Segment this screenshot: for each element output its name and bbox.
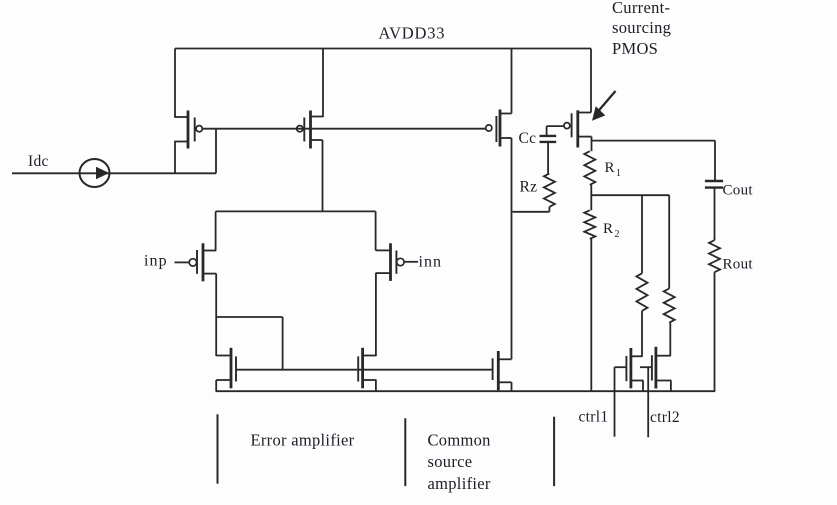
svg-text:Cout: Cout: [723, 183, 754, 199]
svg-text:R: R: [603, 221, 613, 237]
svg-text:inp: inp: [144, 253, 168, 270]
svg-text:PMOS: PMOS: [612, 39, 658, 58]
svg-text:Current-: Current-: [612, 0, 670, 17]
svg-text:inn: inn: [419, 254, 442, 271]
svg-text:ctrl2: ctrl2: [650, 409, 680, 426]
svg-text:amplifier: amplifier: [428, 474, 491, 493]
svg-text:Rz: Rz: [520, 179, 538, 196]
svg-text:AVDD33: AVDD33: [379, 23, 446, 42]
svg-text:source: source: [428, 452, 473, 471]
svg-text:2: 2: [615, 229, 620, 240]
svg-text:1: 1: [616, 168, 621, 179]
svg-text:R: R: [605, 160, 615, 176]
svg-text:ctrl1: ctrl1: [579, 409, 609, 426]
svg-text:Idc: Idc: [28, 153, 49, 170]
svg-text:Common: Common: [428, 431, 491, 450]
svg-text:Error amplifier: Error amplifier: [251, 431, 355, 450]
svg-text:Cc: Cc: [519, 130, 537, 147]
svg-text:sourcing: sourcing: [612, 18, 671, 37]
svg-text:Rout: Rout: [723, 257, 754, 273]
